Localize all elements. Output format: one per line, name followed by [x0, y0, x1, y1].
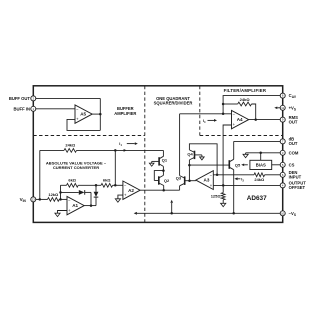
wire 6k to A2 — [113, 184, 123, 186]
transistor Q4 — [194, 151, 196, 159]
ground com — [243, 154, 248, 157]
svg-text:125Ω: 125Ω — [211, 193, 222, 198]
svg-text:COM: COM — [289, 150, 299, 155]
wire Q5 collector up — [233, 141, 235, 159]
wire A4 plus down — [223, 125, 231, 185]
wire 24k fb right — [252, 104, 256, 120]
wire A2 output — [140, 189, 180, 191]
wire Q2 base loop — [154, 171, 163, 181]
current arrowhead on I1 wire — [124, 149, 127, 152]
svg-text:A4: A4 — [237, 117, 243, 122]
wire Q2 emitter — [163, 186, 165, 191]
wire Q3 collector up — [179, 114, 181, 176]
svg-text:Q3: Q3 — [176, 176, 182, 181]
wire A2 plus to ground — [118, 195, 123, 199]
svg-text:A1: A1 — [72, 203, 78, 208]
svg-text:OUT: OUT — [289, 141, 298, 146]
terminal RMS OUT pin9 — [280, 117, 285, 122]
ground A2 — [115, 199, 120, 202]
node I2 on bus — [170, 212, 173, 215]
bus left arrowhead — [134, 212, 137, 215]
wire -Vs bus — [137, 212, 280, 214]
bias control arrow — [241, 163, 244, 166]
wire cs to bias — [272, 164, 281, 166]
wire Q4 base ground stem — [201, 155, 203, 157]
transistor Q3 — [184, 176, 186, 185]
svg-text:SQUARER/DIVIDER: SQUARER/DIVIDER — [154, 101, 193, 106]
node A4 output — [254, 118, 257, 121]
wire A5 output right vertical — [99, 98, 101, 130]
svg-text:Q4: Q4 — [187, 152, 193, 157]
terminal BUFF OUT pin2 — [31, 96, 36, 101]
node A2 summing — [114, 184, 117, 187]
wire A3 plus input — [213, 184, 280, 186]
wire Q4 emitter down — [188, 160, 190, 181]
node diode D1 anode — [59, 191, 62, 194]
svg-text:10: 10 — [281, 211, 285, 215]
wire D1 cathode down — [90, 192, 92, 205]
svg-text:Q5: Q5 — [235, 163, 241, 168]
op-amp A2 — [123, 181, 140, 199]
wire com — [246, 152, 281, 154]
svg-text:13: 13 — [32, 197, 36, 201]
terminal CAV pin8 — [280, 93, 285, 98]
svg-text:A5: A5 — [80, 112, 86, 117]
op-amp A3 — [196, 171, 214, 190]
wire 24k top left — [40, 149, 64, 151]
node A1 summing — [59, 198, 62, 201]
svg-text:BUFF IN: BUFF IN — [13, 106, 30, 111]
op-amp A5 — [75, 105, 92, 123]
wire A1 output — [84, 205, 96, 207]
node 24k fb tap — [222, 103, 225, 106]
node A3 minus — [216, 174, 219, 177]
resistor R6 24k filter — [238, 102, 252, 106]
node A5 output — [99, 113, 102, 116]
node Q2 emitter junction — [162, 189, 165, 192]
svg-text:24kΩ: 24kΩ — [254, 177, 265, 182]
svg-text:11: 11 — [281, 106, 284, 110]
resistor R5 125ohm — [222, 185, 224, 192]
wire summing node up — [60, 185, 62, 199]
wire Q1 emitter — [162, 166, 164, 170]
wire A5 feedback — [67, 119, 100, 130]
wire squarer to A4 — [180, 113, 232, 115]
wire A5 output — [92, 113, 100, 115]
wire 24k top right — [77, 149, 164, 151]
svg-text:6kΩ: 6kΩ — [68, 178, 76, 183]
terminal +VS pin11 — [280, 105, 285, 110]
ground Q4 base — [200, 157, 205, 160]
svg-text:CS: CS — [289, 162, 295, 167]
svg-text:AD637: AD637 — [247, 195, 267, 202]
op-amp A1 — [67, 196, 84, 214]
terminal CS pin5 — [280, 162, 285, 167]
terminal -VS pin10 — [280, 211, 285, 216]
svg-text:OUT: OUT — [289, 119, 298, 124]
wire Q3 emitter — [179, 186, 181, 190]
wire db out — [234, 140, 281, 142]
wire buff in — [36, 108, 75, 110]
ground Q1 base — [149, 163, 154, 166]
svg-text:24kΩ: 24kΩ — [240, 97, 251, 102]
terminal COM pin3 — [280, 150, 285, 155]
wire bias to com — [260, 153, 262, 161]
resistor R2 24k — [64, 149, 77, 153]
wire A4 output — [249, 119, 281, 121]
transistor Q5 — [228, 160, 230, 169]
node Q5 emitter on bus — [232, 212, 235, 215]
dashed divider buffer section bottom — [33, 135, 145, 137]
node Q3 base — [188, 179, 191, 182]
wire Q5 emitter down — [233, 170, 235, 214]
wire vin — [36, 198, 48, 200]
wire 12k to A1 — [59, 198, 67, 200]
node vin feedback — [39, 198, 42, 201]
svg-text:AMPLIFIER: AMPLIFIER — [114, 111, 136, 116]
resistor R3 6k — [67, 183, 79, 187]
svg-text:FILTER/AMPLIFIER: FILTER/AMPLIFIER — [224, 88, 267, 93]
dashed divider buffer/squarer — [144, 86, 146, 223]
svg-text:12kΩ: 12kΩ — [48, 192, 59, 197]
label I3 annotation — [234, 177, 237, 180]
node A4 minus — [222, 113, 225, 116]
ground 125ohm — [221, 203, 226, 206]
node bias top — [259, 152, 262, 155]
wire between 6k — [78, 184, 101, 186]
wire I1 node down — [114, 150, 116, 185]
wire Q4 collector loop — [189, 144, 217, 175]
bias box — [250, 160, 272, 169]
resistor R1 12k — [48, 198, 60, 202]
wire Q1 base ground stem — [151, 161, 153, 163]
svg-text:BUFF OUT: BUFF OUT — [9, 96, 31, 101]
resistor R4 6k — [101, 183, 113, 187]
node diode D2 top — [95, 184, 98, 187]
wire buff out — [36, 97, 101, 99]
wire 24k feedback left vertical — [39, 150, 41, 199]
svg-text:Q2: Q2 — [164, 178, 170, 183]
svg-text:INPUT: INPUT — [289, 175, 302, 180]
node Q1-Q2 — [162, 169, 165, 172]
transistor Q2 — [158, 176, 160, 184]
supply arrow +Vs — [274, 106, 277, 109]
node A1 output — [90, 204, 93, 207]
ground A1 — [55, 213, 60, 216]
dashed divider squarer/filter — [199, 86, 201, 136]
wire den input — [265, 174, 281, 176]
svg-text:Q1: Q1 — [162, 158, 168, 163]
diode D2 — [95, 185, 97, 192]
wire com ground stem — [245, 153, 247, 155]
terminal DEN INPUT pin6 — [280, 172, 285, 177]
wire A1 plus to ground — [58, 211, 68, 214]
terminal VIN pin13 — [31, 197, 36, 202]
svg-text:A2: A2 — [128, 188, 134, 193]
wire 24k fb left — [223, 103, 238, 105]
resistor R7 24k den — [254, 173, 265, 177]
dashed divider filter section bottom — [200, 135, 283, 137]
node I1 branch — [114, 149, 117, 152]
terminal OUTPUT OFFSET pin4 — [280, 183, 285, 188]
wire 6k chain start — [61, 184, 67, 186]
node 125ohm tap — [222, 184, 225, 187]
terminal dB OUT pin7 — [280, 139, 285, 144]
current arrow I2 up — [170, 200, 173, 203]
svg-text:OFFSET: OFFSET — [289, 185, 306, 190]
IC outline box — [33, 86, 282, 223]
transistor Q1 — [158, 157, 160, 165]
svg-text:24kΩ: 24kΩ — [65, 142, 76, 147]
wire A3 minus input — [213, 174, 254, 176]
svg-text:6kΩ: 6kΩ — [103, 178, 111, 183]
op-amp A4 — [232, 110, 249, 128]
wire Q2 collector — [162, 171, 164, 176]
svg-text:CURRENT CONVERTER: CURRENT CONVERTER — [53, 165, 99, 170]
diode D1 — [61, 191, 79, 193]
terminal BUFF IN pin1 — [31, 106, 36, 111]
wire cav — [223, 96, 280, 114]
svg-text:BIAS: BIAS — [256, 163, 266, 168]
wire Q1 collector from I1 — [162, 150, 164, 156]
node Q5 base junction — [188, 164, 191, 167]
